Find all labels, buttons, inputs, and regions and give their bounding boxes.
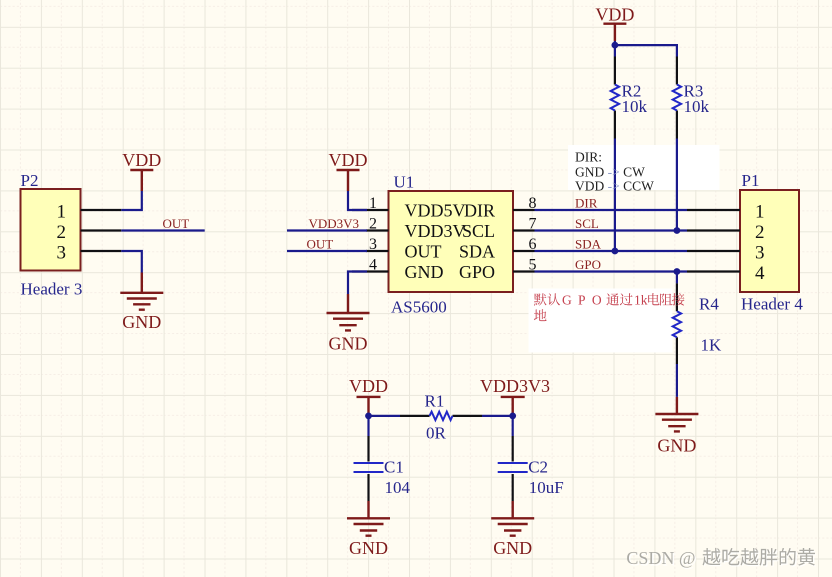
P2 pin 2	[81, 229, 122, 231]
wire U1 pin4 to GND	[348, 272, 367, 295]
svg-text:1k: 1k	[634, 293, 648, 308]
wire SDA	[535, 250, 688, 252]
svg-text:VDD3V3: VDD3V3	[480, 376, 550, 396]
svg-text:GND: GND	[657, 436, 696, 456]
resistor R4 pins	[676, 283, 678, 364]
svg-text:C2: C2	[528, 458, 548, 477]
wire P2 pin3 to GND	[121, 251, 142, 273]
P2 pin 3	[81, 250, 122, 252]
power port VDD (top)	[603, 24, 626, 41]
ground GND (U1)	[327, 294, 370, 330]
svg-text:GND: GND	[329, 334, 368, 354]
svg-text:VDD3V: VDD3V	[405, 221, 466, 241]
svg-text:VDD3V3: VDD3V3	[309, 216, 360, 231]
svg-text:VDD5V: VDD5V	[405, 200, 466, 220]
svg-text:3: 3	[755, 243, 765, 264]
wire R3 to SCL	[676, 139, 678, 231]
power port VDD (U1)	[337, 170, 360, 191]
svg-text:SDA: SDA	[459, 241, 495, 261]
svg-text:3: 3	[57, 243, 67, 264]
wire DIR	[535, 209, 688, 211]
resistor R3 pins	[676, 57, 678, 139]
svg-text:P2: P2	[21, 171, 39, 190]
svg-text:10uF: 10uF	[529, 478, 564, 497]
svg-text:SCL: SCL	[462, 221, 495, 241]
svg-text:1K: 1K	[701, 336, 723, 355]
U1 pin 8	[513, 209, 535, 211]
junction R2-SDA	[612, 248, 619, 255]
capacitor C1 pins	[367, 436, 369, 501]
junction VDD-R1-C1	[365, 413, 372, 420]
svg-text:DIR:: DIR:	[575, 150, 602, 165]
svg-text:VDD: VDD	[349, 376, 388, 396]
wire SCL	[535, 229, 688, 231]
svg-text:VDD: VDD	[329, 150, 368, 170]
U1 pin 4	[352, 270, 389, 272]
svg-text:10k: 10k	[622, 97, 648, 116]
red note background	[529, 289, 673, 353]
junction VDD3V3-R1-C2	[509, 413, 516, 420]
svg-text:Header 4: Header 4	[741, 295, 803, 314]
svg-text:SDA: SDA	[575, 237, 602, 252]
wire P2 pin1 to VDD	[121, 191, 142, 210]
power port VDD (bottom)	[357, 397, 381, 416]
svg-text:P1: P1	[742, 171, 760, 190]
svg-text:GPO: GPO	[575, 257, 601, 272]
svg-text:2: 2	[369, 216, 377, 233]
svg-text:VDD: VDD	[122, 150, 161, 170]
svg-text:1: 1	[755, 202, 765, 223]
svg-text:R4: R4	[699, 295, 719, 314]
note background	[568, 145, 720, 190]
wire U1 pin1 to VDD	[348, 191, 367, 210]
svg-text:C1: C1	[384, 458, 404, 477]
svg-text:U1: U1	[394, 173, 415, 192]
svg-text:Header 3: Header 3	[21, 280, 83, 299]
svg-text:3: 3	[369, 236, 377, 253]
connector P1 body	[740, 190, 799, 292]
U1 pin 5	[513, 270, 535, 272]
svg-text:DIR: DIR	[575, 196, 598, 211]
wire VDD to C1	[367, 416, 369, 436]
wire R4 to GND	[676, 364, 678, 397]
text 默认 (red note)	[534, 293, 560, 305]
ground GND (C2)	[491, 501, 534, 536]
ground GND (R4)	[655, 397, 698, 432]
resistor R3 zigzag	[673, 85, 681, 111]
svg-text:1: 1	[57, 202, 67, 223]
svg-text:GND: GND	[405, 262, 444, 282]
text 电阻接 (red note)	[648, 293, 684, 306]
P1 pin 3	[687, 250, 740, 252]
svg-text:OUT: OUT	[163, 216, 190, 231]
svg-text:GND: GND	[493, 538, 532, 558]
svg-text:GPO: GPO	[562, 293, 608, 308]
text 地 (red note line2)	[534, 309, 547, 321]
svg-text:2: 2	[755, 222, 765, 243]
P2 pin 1	[81, 209, 122, 211]
svg-text:4: 4	[369, 257, 377, 274]
svg-text:CSDN @CSDN @: CSDN @CSDN @	[626, 548, 696, 569]
wire VDD3V3 to U1 pin2	[287, 229, 367, 231]
P1 pin 2	[687, 229, 740, 231]
svg-text:0R: 0R	[426, 424, 447, 443]
svg-text:VDD: VDD	[595, 5, 634, 25]
svg-text:GND: GND	[122, 312, 161, 332]
connector P2 body	[21, 189, 81, 271]
resistor R1 zigzag	[430, 412, 453, 420]
svg-text:SCL: SCL	[575, 216, 599, 231]
svg-text:VDD -> CCW: VDD -> CCW	[575, 179, 654, 194]
wire OUT to U1 pin3	[287, 250, 367, 252]
wire VDD to R2/R3	[615, 41, 677, 57]
U1 pin 7	[513, 229, 535, 231]
svg-text:OUT: OUT	[405, 241, 442, 261]
wire VDD3V3 to C2	[512, 416, 514, 436]
wire OUT from P2 pin2	[121, 229, 204, 231]
resistor R2 zigzag	[611, 85, 619, 111]
watermark CJK shadow	[704, 549, 817, 567]
svg-text:2: 2	[57, 222, 67, 243]
power port VDD (P2)	[130, 170, 153, 191]
junction VDD split	[612, 42, 619, 49]
P1 pin 4	[687, 270, 740, 272]
svg-text:GND -> CW: GND -> CW	[575, 165, 645, 180]
text 通过 (red note)	[606, 293, 632, 305]
capacitor C1 plates	[354, 463, 384, 472]
power port VDD3V3	[501, 397, 525, 416]
wire GPO to R4	[676, 272, 678, 284]
U1 pin 6	[513, 250, 535, 252]
svg-text:GND: GND	[349, 538, 388, 558]
svg-text:R1: R1	[425, 392, 445, 411]
junction R3-SCL	[674, 227, 681, 234]
resistor R2 pins	[614, 57, 616, 139]
ground GND (C1)	[347, 501, 390, 536]
svg-text:10k: 10k	[684, 97, 710, 116]
resistor R1 pins	[400, 415, 482, 417]
junction GPO-R4	[674, 268, 681, 275]
svg-text:GPO: GPO	[459, 262, 495, 282]
ic U1 body	[389, 191, 514, 292]
watermark CJK 越吃越胖的黄	[703, 548, 816, 566]
P1 pin 1	[687, 209, 740, 211]
wire R1 to VDD3V3	[482, 415, 513, 417]
svg-text:OUT: OUT	[307, 237, 334, 252]
svg-text:AS5600: AS5600	[391, 298, 447, 317]
wire GPO	[535, 270, 688, 272]
svg-text:1: 1	[369, 195, 377, 212]
svg-text:DIR: DIR	[464, 200, 495, 220]
wire VDD to R1	[369, 415, 401, 417]
capacitor C2 pins	[512, 436, 514, 501]
resistor R4 zigzag	[673, 311, 681, 337]
U1 pin 2	[366, 229, 389, 231]
U1 pin 1	[352, 209, 389, 211]
svg-text:4: 4	[755, 263, 765, 284]
svg-text:104: 104	[385, 478, 411, 497]
ground GND (P2)	[120, 273, 163, 310]
wire R2 to SDA	[614, 139, 616, 252]
U1 pin 3	[366, 250, 389, 252]
capacitor C2 plates	[498, 463, 528, 472]
